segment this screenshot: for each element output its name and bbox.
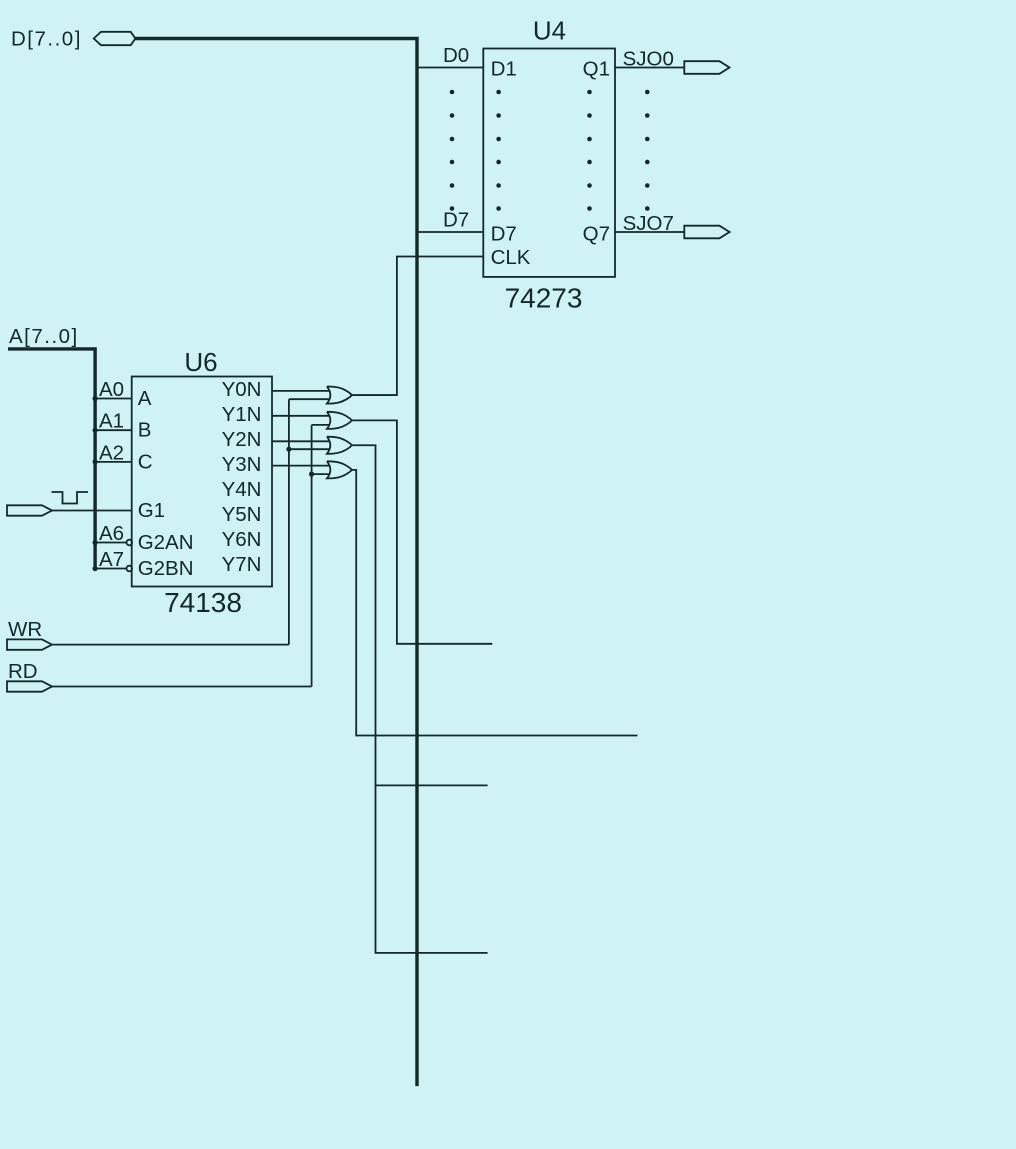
wire A1 bbox=[93, 410, 132, 433]
wire Y3N to gate4 bbox=[272, 465, 330, 467]
wire A6 with bubble G2AN bbox=[93, 522, 133, 545]
svg-text:74273: 74273 bbox=[505, 283, 583, 314]
wire Y1N to gate2 bbox=[272, 415, 330, 417]
bus D[7..0] main vertical/horizontal bus bbox=[135, 39, 417, 1087]
svg-text:74138: 74138 bbox=[164, 587, 242, 618]
or-gate G1B (Y1N+RD) bbox=[327, 412, 352, 429]
svg-text:WR: WR bbox=[8, 618, 42, 641]
wire A2 bbox=[93, 441, 132, 464]
wire Y0N to gate1 bbox=[272, 390, 330, 392]
wire WR vertical to gate inputs bbox=[286, 399, 330, 644]
wire G1 bbox=[52, 510, 132, 512]
connector D[7..0] bbox=[11, 28, 135, 51]
wire gate4 output to enable inverter bbox=[352, 470, 638, 736]
wire A0 bbox=[93, 378, 132, 401]
svg-text:SJO0: SJO0 bbox=[623, 48, 674, 71]
svg-text:Y5N: Y5N bbox=[222, 503, 262, 526]
wire D7 bus to U4.D7 bbox=[417, 209, 483, 233]
svg-text:Y6N: Y6N bbox=[222, 528, 262, 551]
or-gate G1D (Y3N+RD) bbox=[327, 461, 352, 478]
connector G1 input bbox=[7, 505, 52, 515]
IC U6 74138 body bbox=[132, 347, 272, 618]
svg-text:C: C bbox=[138, 450, 153, 473]
wire U4.Q1 to SJO0 bbox=[615, 67, 684, 69]
wire WR bbox=[52, 644, 289, 646]
svg-text:B: B bbox=[138, 419, 152, 442]
svg-text:A[7..0]: A[7..0] bbox=[9, 325, 79, 348]
svg-text:G2BN: G2BN bbox=[138, 557, 194, 580]
wire gate3 output to U5 1GN and 2GN bbox=[352, 445, 488, 953]
svg-text:Y4N: Y4N bbox=[222, 478, 262, 501]
svg-text:A7: A7 bbox=[99, 548, 124, 571]
svg-text:A1: A1 bbox=[99, 410, 124, 433]
svg-text:D1: D1 bbox=[491, 58, 517, 81]
svg-text:Y2N: Y2N bbox=[222, 428, 262, 451]
wire U4.Q7 to SJO7 bbox=[615, 231, 684, 233]
svg-text:CLK: CLK bbox=[491, 246, 531, 269]
svg-text:A2: A2 bbox=[99, 441, 124, 464]
svg-text:A6: A6 bbox=[99, 522, 124, 545]
wire RD vertical to gate inputs bbox=[309, 425, 330, 687]
svg-text:Y7N: Y7N bbox=[222, 553, 262, 576]
connector WR bbox=[7, 618, 52, 650]
connector SJO0 bbox=[623, 48, 730, 74]
wire gate1 output to U4 CLK bbox=[352, 257, 484, 396]
svg-text:RD: RD bbox=[8, 660, 38, 683]
svg-text:Q7: Q7 bbox=[583, 223, 610, 246]
svg-text:D[7..0]: D[7..0] bbox=[11, 28, 82, 51]
svg-text:Y3N: Y3N bbox=[222, 453, 262, 476]
svg-text:G2AN: G2AN bbox=[138, 531, 194, 554]
wire gate2 output to U1 CLK bbox=[352, 420, 493, 643]
pulse symbol at G1 bbox=[52, 492, 89, 504]
svg-text:D7: D7 bbox=[491, 223, 517, 246]
IC U4 74273 body bbox=[483, 16, 615, 314]
svg-text:U6: U6 bbox=[184, 347, 217, 377]
wire Y2N to gate3 bbox=[272, 440, 330, 442]
or-gate G1C (Y2N+WR) bbox=[327, 437, 352, 454]
svg-text:D7: D7 bbox=[443, 209, 469, 232]
wire RD bbox=[52, 686, 312, 688]
wire A7 with bubble G2BN bbox=[93, 548, 133, 571]
svg-text:G1: G1 bbox=[138, 499, 165, 522]
svg-text:Q1: Q1 bbox=[583, 58, 610, 81]
svg-text:Y0N: Y0N bbox=[222, 378, 262, 401]
bus A[7..0] bbox=[8, 349, 95, 569]
svg-text:SJO7: SJO7 bbox=[623, 212, 674, 235]
svg-text:A: A bbox=[138, 387, 152, 410]
svg-text:A0: A0 bbox=[99, 378, 124, 401]
svg-text:Y1N: Y1N bbox=[222, 403, 262, 426]
wire D0 bus to U4.D1 bbox=[417, 44, 483, 68]
connector SJO7 bbox=[623, 212, 730, 238]
connector RD bbox=[7, 660, 52, 692]
ellipsis dots U4 columns bbox=[450, 90, 650, 211]
or-gate G1A (Y0N+WR) bbox=[327, 386, 352, 403]
svg-text:D0: D0 bbox=[443, 44, 469, 67]
svg-text:U4: U4 bbox=[533, 16, 566, 46]
